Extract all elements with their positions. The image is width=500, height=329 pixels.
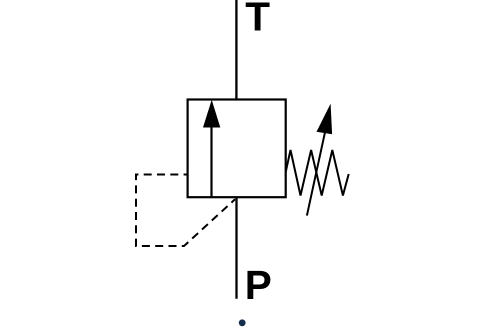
svg-text:T: T bbox=[245, 0, 270, 40]
svg-text:P: P bbox=[245, 262, 272, 308]
